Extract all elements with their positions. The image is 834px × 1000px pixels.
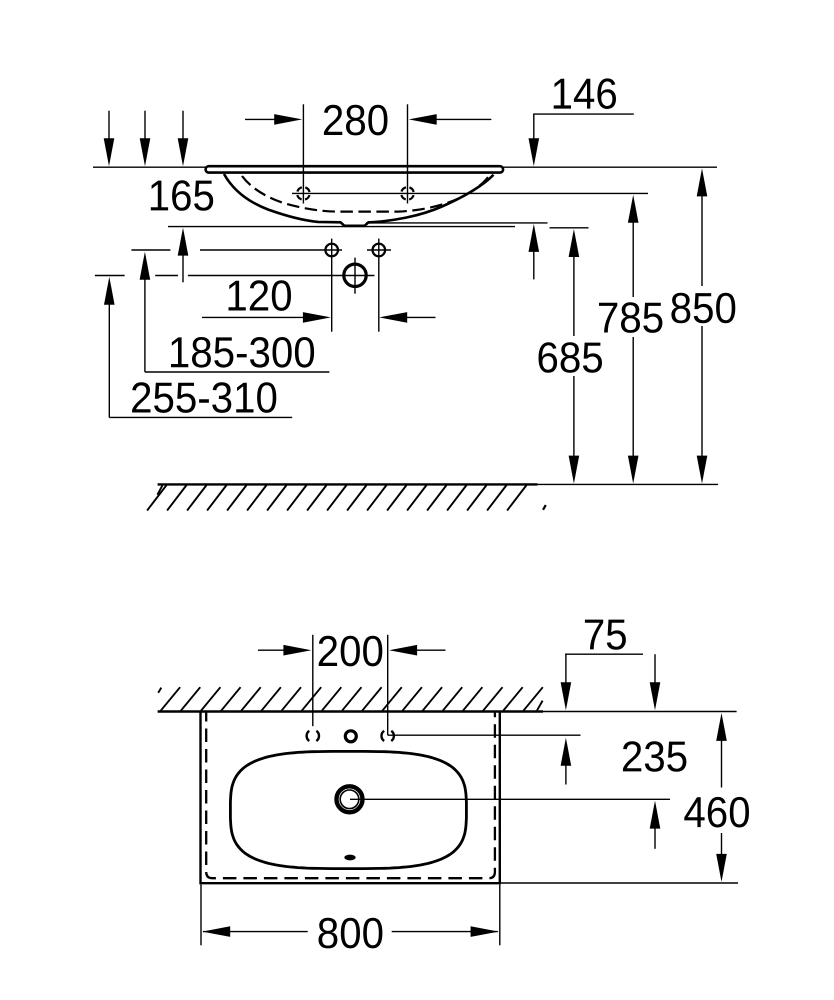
dimension 685 [569, 229, 580, 257]
wall-mount arrow for 165 [182, 111, 184, 140]
dimension 235 [654, 654, 656, 683]
faucet hole right (plan) [381, 731, 384, 741]
top surface line [93, 166, 717, 168]
dimension 280 [302, 104, 304, 203]
basin outline (plan view) [201, 712, 500, 884]
floor hatch end dash [543, 505, 546, 510]
dimension 120 [202, 316, 304, 318]
floor hatching [147, 485, 526, 511]
wall hatch end partial stroke [537, 701, 543, 711]
faucet hole left (plan) [307, 731, 310, 741]
drain hole (side view) [344, 264, 366, 286]
wall-mount arrow for 255-310 [108, 111, 110, 140]
dimension 185-300 [140, 252, 151, 280]
mounting hole left (side view) [325, 244, 338, 257]
faucet hole center (plan) [345, 731, 356, 742]
dimension 200 [312, 635, 314, 726]
wall hatching [161, 687, 543, 711]
dimension 165 [151, 180, 213, 211]
dimension 850 [697, 168, 708, 196]
bowl inner profile (dashed) [242, 176, 489, 212]
wall line [158, 710, 543, 712]
overflow slot [344, 855, 355, 861]
dimension 75 [565, 653, 643, 655]
faucet holes line (75/235 reference) [388, 734, 581, 736]
drain center line [350, 798, 670, 800]
wall hatch stub [158, 688, 161, 693]
washbasin slab (side view) [206, 166, 504, 172]
bowl bottom line (165 reference) [168, 226, 515, 228]
drain (plan view) [337, 786, 363, 812]
mounting hole right (side view) [373, 244, 386, 257]
basin bowl rim (plan view) [230, 751, 466, 868]
floor line [158, 483, 538, 485]
dimension 460 [716, 713, 727, 741]
dimension 255-310 [104, 277, 115, 305]
faucet hole left (dashed circle, side view) [297, 187, 310, 200]
wall-mount arrow for 185-300 [144, 111, 146, 140]
dimension 800 [200, 885, 202, 946]
bowl outer profile [224, 174, 494, 226]
faucet hole right (dashed circle, side view) [401, 187, 414, 200]
floor hatch stub [157, 485, 162, 494]
faucet holes height line (785 reference) [292, 192, 648, 194]
mounting holes line [131, 249, 170, 251]
685 reference line [550, 227, 589, 229]
basin bottom edge extension line [500, 882, 738, 884]
dimension 785 [628, 195, 639, 223]
dimension 146 [533, 113, 634, 115]
basin underside line (146 reference) [366, 222, 548, 224]
drain center line [95, 275, 125, 277]
basin hidden edge (dashed outline) [206, 713, 495, 879]
